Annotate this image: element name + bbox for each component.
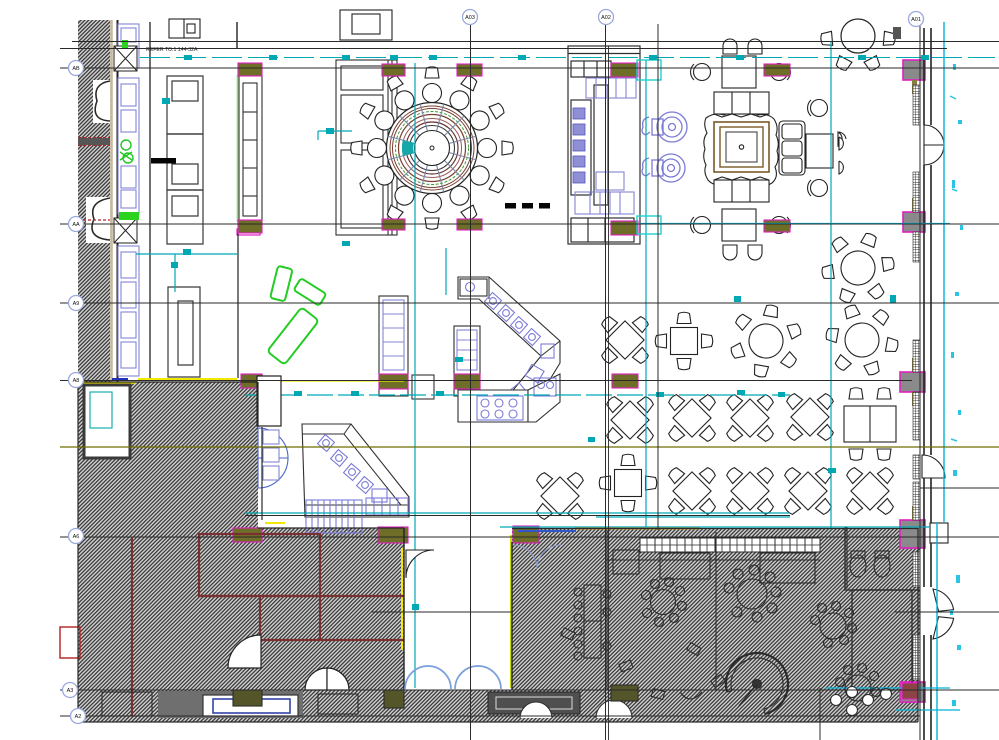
svg-text:A01: A01 [911,17,921,23]
svg-text:A02: A02 [601,15,611,21]
svg-text:REFER TO.1 144-32A: REFER TO.1 144-32A [146,47,198,53]
svg-text:AB: AB [72,66,80,72]
svg-text:A2: A2 [75,714,82,720]
svg-text:A3: A3 [67,688,74,694]
svg-text:A9: A9 [73,301,80,307]
svg-text:A03: A03 [465,15,475,21]
svg-text:A6: A6 [73,534,80,540]
svg-text:A8: A8 [73,378,80,384]
svg-text:AA: AA [72,222,80,228]
